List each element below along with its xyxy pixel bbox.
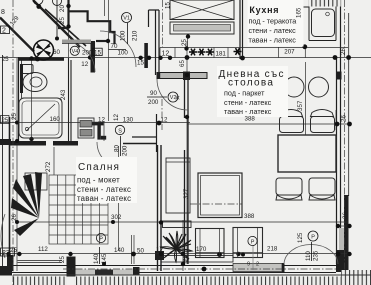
wall bottom double lines xyxy=(12,265,336,267)
wire centerline x162.5 top xyxy=(162,0,164,47)
chair bottom-left xyxy=(276,178,302,200)
svg-text:165: 165 xyxy=(296,7,303,18)
svg-text:357: 357 xyxy=(297,100,304,111)
armchair left xyxy=(196,229,225,258)
wall stepped hall top xyxy=(58,0,115,44)
svg-text:80: 80 xyxy=(114,145,121,152)
svg-text:25: 25 xyxy=(181,39,188,46)
svg-text:388: 388 xyxy=(244,213,255,220)
door V2 arc living xyxy=(157,79,188,110)
svg-text:9: 9 xyxy=(247,262,250,268)
svg-text:100: 100 xyxy=(119,30,126,41)
wire dim vertical x187 xyxy=(186,41,188,79)
svg-text:P: P xyxy=(311,234,315,240)
toilet bowl xyxy=(23,73,47,92)
wire centerline y269 bottom xyxy=(63,268,336,270)
wire dim horizontal y124 right xyxy=(187,123,351,125)
svg-text:таван - латекс: таван - латекс xyxy=(249,36,297,45)
svg-text:P: P xyxy=(251,239,255,245)
wire dim vertical x183 bottom xyxy=(182,220,184,271)
wire diagonal stair wall upper xyxy=(33,0,80,47)
dimension numbers xyxy=(2,43,295,255)
svg-text:327: 327 xyxy=(183,188,190,199)
wire diagonal stair lower xyxy=(0,18,34,52)
wall hall right of V1 door xyxy=(149,10,160,75)
grid labels left xyxy=(1,0,62,257)
svg-text:388: 388 xyxy=(245,116,256,123)
hatch bottom left railing xyxy=(13,277,67,285)
hatch kitchen window top xyxy=(308,0,341,7)
wire dim vertical x336 xyxy=(335,110,337,130)
svg-text:200: 200 xyxy=(82,50,93,57)
chair bottom-right xyxy=(309,178,335,200)
wall living top with gray band xyxy=(157,73,207,79)
svg-text:25: 25 xyxy=(11,113,18,120)
wire centerline x344.5 xyxy=(344,0,346,285)
wire centerline x13 xyxy=(12,0,14,285)
svg-text:12: 12 xyxy=(156,247,163,254)
svg-text:112: 112 xyxy=(38,246,48,253)
symbol circles xyxy=(70,13,318,246)
wall kitchen divider x241 xyxy=(239,0,241,59)
svg-text:ж: ж xyxy=(176,96,180,102)
svg-text:130: 130 xyxy=(123,116,134,123)
svg-text:207: 207 xyxy=(284,49,295,56)
hall cabinet xyxy=(78,118,94,138)
wire window gray band living xyxy=(233,264,282,272)
svg-text:26: 26 xyxy=(342,212,349,219)
svg-text:145: 145 xyxy=(101,253,108,264)
kitchen sink xyxy=(312,9,335,37)
wire dim vertical x108 xyxy=(104,0,106,16)
svg-text:25: 25 xyxy=(2,118,9,124)
kitchen counter with X xyxy=(170,0,234,20)
svg-text:140: 140 xyxy=(114,247,125,254)
svg-text:23: 23 xyxy=(2,250,10,257)
shrub arc left edge xyxy=(1,214,5,258)
door V1 arc xyxy=(100,31,136,67)
svg-text:15: 15 xyxy=(165,2,172,9)
gray lintel above V4 xyxy=(62,40,91,44)
svg-text:25: 25 xyxy=(59,17,66,24)
wire centerline x162 xyxy=(161,99,163,130)
wire V1 door leaf xyxy=(144,43,148,68)
svg-text:P: P xyxy=(99,236,103,242)
svg-text:210: 210 xyxy=(131,30,138,41)
fraction lines xyxy=(93,23,312,264)
svg-text:Кухня: Кухня xyxy=(249,5,279,15)
svg-text:25: 25 xyxy=(59,256,66,263)
wire centerline y204 living xyxy=(190,203,242,205)
wall bathroom top xyxy=(19,57,64,61)
wall V1 left jamb black xyxy=(91,41,96,73)
svg-text:243: 243 xyxy=(60,89,67,100)
wire dim vertical x118.5 bedroom xyxy=(118,146,120,250)
svg-text:140: 140 xyxy=(93,253,100,264)
svg-text:26: 26 xyxy=(11,214,18,221)
wall left bottom corner xyxy=(7,255,14,271)
svg-text:65: 65 xyxy=(179,60,186,67)
svg-text:стени - латекс: стени - латекс xyxy=(249,26,297,35)
wire jamb lines x131.5 x134 xyxy=(131,235,133,264)
svg-text:90: 90 xyxy=(150,90,157,97)
svg-text:170: 170 xyxy=(196,246,207,253)
hatch bottom main railing xyxy=(74,277,344,285)
door arcs xyxy=(64,31,338,264)
wall bathroom right double xyxy=(68,58,70,141)
svg-text:20: 20 xyxy=(59,5,66,12)
door bedroom arc xyxy=(97,142,123,168)
wardrobe niche xyxy=(166,158,190,213)
wire dim vertical x17 xyxy=(16,58,18,271)
stars xyxy=(189,48,242,55)
wire dim horizontal y57.5 xyxy=(0,57,371,59)
wall hall-bedroom corner L xyxy=(90,122,104,126)
svg-text:12: 12 xyxy=(113,114,120,121)
living square table xyxy=(198,173,242,218)
wire stub x187.5 under counter xyxy=(187,34,189,48)
door V4 arc xyxy=(64,42,95,73)
bed pillow xyxy=(25,173,47,190)
wire dim vertical x68.5 xyxy=(68,27,70,58)
wall sink unit left xyxy=(308,0,310,41)
svg-text:200: 200 xyxy=(122,145,129,156)
wall bottom black segments xyxy=(0,266,12,276)
svg-text:стени - латекс: стени - латекс xyxy=(224,98,272,107)
armchair right xyxy=(233,228,263,258)
wire window sill bedroom xyxy=(18,260,63,262)
svg-text:стени - латекс: стени - латекс xyxy=(77,185,131,194)
svg-text:200: 200 xyxy=(148,99,159,106)
wall right black bar bottom xyxy=(344,195,349,285)
wire railing top line xyxy=(13,274,371,276)
svg-text:50: 50 xyxy=(137,248,144,255)
svg-text:Спалня: Спалня xyxy=(78,162,120,173)
wire dim vertical x31.5 bathroom xyxy=(31,58,33,142)
plant bottom center xyxy=(161,231,192,262)
svg-text:12: 12 xyxy=(98,116,105,123)
svg-text:235: 235 xyxy=(313,250,320,261)
boiler circle column symbol xyxy=(34,40,54,60)
svg-text:160: 160 xyxy=(50,116,61,123)
wire dim horizontal y253 bottom xyxy=(0,253,350,255)
svg-text:под - паркет: под - паркет xyxy=(224,88,265,97)
wire dim 26 right horizontal xyxy=(337,225,352,227)
svg-text:12: 12 xyxy=(81,61,88,68)
svg-text:26: 26 xyxy=(340,48,347,55)
svg-text:218: 218 xyxy=(267,246,278,253)
svg-text:2: 2 xyxy=(256,262,259,268)
wire dim horizontal y47.5 kitchen xyxy=(160,47,348,49)
svg-text:100: 100 xyxy=(118,50,129,57)
dining table xyxy=(278,135,336,172)
svg-text:столова: столова xyxy=(228,78,274,89)
svg-text:12: 12 xyxy=(161,116,168,123)
svg-text:12: 12 xyxy=(162,51,170,58)
wire box around 12 xyxy=(159,48,161,58)
wall bedroom right double xyxy=(157,145,159,271)
dining stool circles xyxy=(284,77,304,97)
wire dim horizontal y121 left xyxy=(0,122,190,124)
v1 fraction rotated xyxy=(119,30,138,41)
wire dim vertical x54 bedroom xyxy=(53,147,55,175)
wall kitchen top right sill xyxy=(280,6,309,8)
shower tray xyxy=(19,98,62,138)
svg-text:2: 2 xyxy=(2,28,6,35)
cabinet below table living xyxy=(163,221,192,228)
wire diagonal stair wall inner xyxy=(45,9,86,46)
svg-text:25: 25 xyxy=(183,255,190,262)
wall living right double xyxy=(336,57,338,264)
chair top-left xyxy=(280,110,304,133)
svg-text:110: 110 xyxy=(305,251,312,261)
svg-text:8: 8 xyxy=(1,9,5,16)
svg-text:таван - латекс: таван - латекс xyxy=(77,194,131,203)
wall bathroom bottom xyxy=(9,141,46,146)
svg-text:302: 302 xyxy=(111,214,122,221)
bed grid xyxy=(49,175,108,244)
wire lintel underline xyxy=(62,43,91,45)
svg-text:под - теракота: под - теракота xyxy=(249,16,297,25)
wall left outer double xyxy=(18,57,20,143)
white text boxes xyxy=(76,0,304,203)
svg-text:70: 70 xyxy=(111,43,118,50)
svg-text:25: 25 xyxy=(2,56,9,63)
wire dim vertical x305.5 dining xyxy=(305,62,307,135)
svg-text:272: 272 xyxy=(45,161,52,172)
svg-text:181: 181 xyxy=(216,51,227,58)
bathroom toilet cistern xyxy=(22,65,33,74)
bed fan dark plant xyxy=(11,172,42,236)
svg-text:V1: V1 xyxy=(123,16,130,22)
wire dim vertical x303 kitchen xyxy=(302,18,304,47)
wall segment y41 xyxy=(96,40,108,42)
chair top-right xyxy=(311,110,335,133)
svg-text:26: 26 xyxy=(341,115,348,122)
svg-text:125: 125 xyxy=(297,232,304,243)
cabinet along bottom wall living xyxy=(161,256,233,263)
door balcony french arcs xyxy=(284,245,338,265)
svg-text:V4: V4 xyxy=(72,49,79,55)
wall left outer lower xyxy=(9,117,11,272)
wall living left xyxy=(184,79,186,118)
wall left black segment xyxy=(0,139,11,145)
svg-text:60: 60 xyxy=(53,49,60,56)
svg-text:под - мокет: под - мокет xyxy=(77,176,120,185)
svg-text:15: 15 xyxy=(137,60,144,67)
wire dim vertical x97 lower xyxy=(103,121,105,141)
wire dim horizontal y222 bedroom xyxy=(17,221,348,223)
svg-text:S: S xyxy=(118,128,122,134)
hatch bottom right corner xyxy=(341,270,371,285)
wire vertical entry x57 xyxy=(56,0,58,39)
